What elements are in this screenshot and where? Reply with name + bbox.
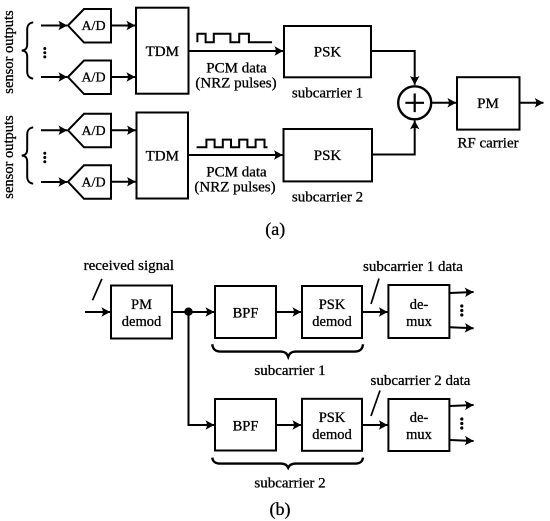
A/D converter 3 bbox=[68, 114, 111, 148]
svg-text:received signal: received signal bbox=[84, 258, 174, 274]
svg-text:PM: PM bbox=[477, 96, 499, 112]
block TDM 1 bbox=[136, 8, 189, 94]
wire sensor to A/D 1 bbox=[41, 25, 67, 27]
svg-text:(b): (b) bbox=[270, 499, 291, 520]
underbrace subcarrier 1 bbox=[212, 344, 363, 356]
block PSK 2 bbox=[284, 129, 373, 181]
block BPF 2 bbox=[215, 399, 276, 451]
wire sensor to A/D 3 bbox=[41, 129, 67, 131]
wire PM output bbox=[520, 102, 544, 104]
wire BPF 2 to PSK demod 2 bbox=[276, 424, 301, 426]
svg-text:PCM data: PCM data bbox=[206, 164, 267, 180]
wire adder to PM bbox=[432, 102, 456, 104]
block PM demod bbox=[111, 286, 172, 339]
wire BPF 1 to PSK demod 1 bbox=[276, 311, 301, 313]
svg-text:A/D: A/D bbox=[81, 19, 105, 34]
wire PM demod to BPF 1 bbox=[172, 311, 214, 313]
brace group 1 bbox=[22, 22, 33, 78]
svg-text:PSK: PSK bbox=[314, 148, 342, 164]
block TDM 2 bbox=[137, 113, 189, 199]
wire de-mux 1 output bottom bbox=[450, 327, 474, 328]
wire sensor to A/D 2 bbox=[41, 76, 67, 78]
wire PSK demod 2 to de-mux 2 bbox=[362, 424, 388, 426]
wire PSK 2 to adder bbox=[372, 121, 415, 155]
wire de-mux 2 output top bbox=[450, 405, 474, 406]
svg-text:demod: demod bbox=[312, 427, 352, 443]
svg-text:A/D: A/D bbox=[81, 71, 105, 86]
wire A/D 3 to TDM 2 bbox=[111, 129, 136, 131]
block de-mux 2 bbox=[388, 399, 449, 451]
svg-text:PCM data: PCM data bbox=[206, 60, 267, 76]
svg-text:de-: de- bbox=[410, 297, 429, 313]
block BPF 1 bbox=[215, 286, 276, 338]
svg-text:mux: mux bbox=[406, 314, 433, 330]
slash received signal bbox=[93, 279, 102, 300]
waveform NRZ 1 bbox=[197, 34, 272, 43]
block PSK demod 1 bbox=[302, 286, 362, 338]
block PSK demod 2 bbox=[302, 399, 362, 451]
svg-text:TDM: TDM bbox=[146, 44, 179, 60]
slash subcarrier 2 data bbox=[371, 391, 380, 417]
dots group 1 bbox=[43, 47, 46, 58]
wire node to BPF 2 bbox=[189, 312, 215, 425]
block PSK 1 bbox=[284, 26, 371, 77]
svg-text:(a): (a) bbox=[265, 219, 285, 240]
block de-mux 1 bbox=[388, 285, 449, 338]
wire sensor to A/D 4 bbox=[41, 181, 67, 183]
wire A/D 1 to TDM 1 bbox=[111, 25, 135, 27]
svg-text:de-: de- bbox=[410, 410, 429, 426]
wire input to PM demod bbox=[85, 311, 110, 313]
svg-text:subcarrier 2 data: subcarrier 2 data bbox=[371, 373, 471, 389]
dots group 2 bbox=[43, 152, 46, 163]
svg-text:PM: PM bbox=[131, 297, 152, 313]
svg-text:subcarrier 1: subcarrier 1 bbox=[254, 363, 325, 379]
block PM bbox=[457, 77, 520, 129]
svg-text:A/D: A/D bbox=[81, 176, 105, 191]
svg-text:subcarrier 1 data: subcarrier 1 data bbox=[363, 259, 463, 275]
underbrace subcarrier 2 bbox=[212, 458, 363, 468]
svg-text:A/D: A/D bbox=[81, 124, 105, 139]
svg-text:(NRZ pulses): (NRZ pulses) bbox=[195, 76, 276, 92]
svg-text:PSK: PSK bbox=[319, 410, 346, 426]
svg-text:BPF: BPF bbox=[233, 419, 259, 435]
slash subcarrier 1 data bbox=[371, 279, 379, 305]
svg-text:sensor outputs: sensor outputs bbox=[1, 115, 17, 199]
svg-text:BPF: BPF bbox=[233, 306, 259, 322]
wire A/D 4 to TDM 2 bbox=[111, 181, 136, 183]
svg-text:demod: demod bbox=[312, 314, 352, 330]
A/D converter 1 bbox=[68, 9, 111, 43]
wire A/D 2 to TDM 1 bbox=[111, 76, 135, 78]
svg-text:TDM: TDM bbox=[146, 149, 179, 165]
node junction dot bbox=[184, 308, 192, 316]
dots de-mux 2 bbox=[460, 417, 463, 429]
dots de-mux 1 bbox=[460, 304, 463, 316]
svg-text:RF carrier: RF carrier bbox=[457, 136, 518, 152]
svg-text:subcarrier 1: subcarrier 1 bbox=[292, 85, 363, 101]
wire PSK 1 to adder bbox=[371, 51, 415, 85]
A/D converter 2 bbox=[68, 61, 111, 95]
svg-text:sensor outputs: sensor outputs bbox=[1, 10, 17, 94]
svg-text:(NRZ pulses): (NRZ pulses) bbox=[194, 180, 275, 196]
A/D converter 4 bbox=[68, 165, 111, 199]
summing junction bbox=[398, 86, 431, 119]
wire de-mux 1 output top bbox=[450, 292, 474, 293]
svg-text:demod: demod bbox=[122, 314, 162, 330]
wire TDM 1 to PSK 1 bbox=[189, 50, 284, 52]
svg-text:subcarrier 2: subcarrier 2 bbox=[254, 476, 325, 492]
wire PSK demod 1 to de-mux 1 bbox=[362, 311, 388, 313]
waveform NRZ 2 bbox=[197, 140, 268, 148]
svg-text:subcarrier 2: subcarrier 2 bbox=[292, 190, 363, 206]
svg-text:mux: mux bbox=[406, 427, 433, 443]
wire TDM 2 to PSK 2 bbox=[188, 154, 283, 156]
wire de-mux 2 output bottom bbox=[450, 440, 474, 441]
svg-text:PSK: PSK bbox=[314, 45, 342, 61]
svg-text:PSK: PSK bbox=[319, 297, 346, 313]
brace group 2 bbox=[22, 127, 33, 183]
